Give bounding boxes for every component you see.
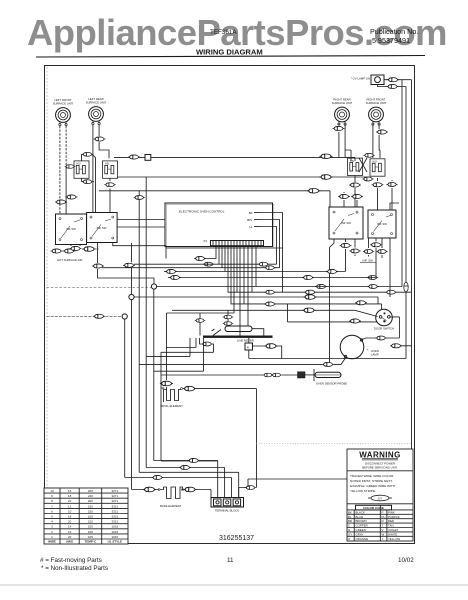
svg-text:* = Non-Illustrated Parts: * = Non-Illustrated Parts — [41, 565, 108, 572]
wire bus y287 ghost — [47, 287, 152, 289]
svg-text:BROIL ELEMENT: BROIL ELEMENT — [161, 404, 184, 408]
svg-text:PU: PU — [382, 515, 386, 519]
connector lf column 2 — [55, 200, 67, 204]
svg-text:150: 150 — [88, 509, 93, 513]
electronic oven control — [165, 203, 274, 248]
wire lamp riser — [330, 239, 335, 364]
wire right switch bottoms — [346, 239, 391, 298]
wire staircase y347 — [167, 338, 197, 348]
connector below right rear burner — [333, 126, 345, 130]
connector y460 — [188, 458, 200, 462]
connector rf switch bottom d — [376, 250, 387, 254]
wire right bus drop b — [405, 87, 407, 359]
svg-text:240: 240 — [88, 494, 93, 498]
oven relay board bar — [203, 336, 273, 338]
connector lr switch bottom b — [123, 263, 135, 267]
svg-text:TERMINAL BLOCK: TERMINAL BLOCK — [215, 509, 239, 513]
svg-text:BLACK: BLACK — [356, 510, 366, 514]
svg-text:RED: RED — [388, 519, 394, 523]
wire eoc terminal drop 5 — [228, 246, 412, 293]
connector eoc t2 — [203, 262, 214, 266]
svg-text:3321: 3321 — [111, 515, 118, 519]
connector bus297 — [303, 295, 316, 300]
wire right switch feeds — [344, 192, 399, 210]
wire block right feed — [238, 488, 240, 498]
node junction circle 2 — [129, 294, 134, 299]
connector bus302 a — [264, 302, 276, 306]
connector rr switch bottom — [340, 243, 352, 247]
svg-text:BR: BR — [348, 519, 352, 523]
wire center drop — [256, 389, 258, 486]
wire eoc terminal drop 4 — [164, 246, 346, 272]
svg-text:1015: 1015 — [111, 525, 118, 529]
oven lamp — [340, 335, 379, 359]
wire bus y286 from junction1 — [157, 286, 402, 288]
svg-text:20: 20 — [68, 520, 72, 524]
wire sensor line left — [161, 374, 298, 376]
wire rr switch stub b — [355, 239, 382, 259]
wire lamp top pin — [362, 338, 412, 346]
connector rf limiter right — [386, 183, 397, 187]
wire bus y175 — [117, 176, 370, 178]
svg-text:105: 105 — [88, 530, 93, 534]
wire limiter crossover — [359, 158, 367, 172]
wire eoc drop to relay bar — [239, 246, 241, 336]
connector rf switch bottom — [370, 243, 382, 247]
connector v139 — [134, 196, 145, 200]
wire eoc drop x237 — [236, 246, 238, 293]
limiter left rear — [103, 161, 118, 178]
connector bus286 mid — [315, 284, 327, 288]
connector broil right — [183, 386, 196, 391]
svg-text:105: 105 — [88, 515, 93, 519]
svg-text:3321: 3321 — [111, 504, 118, 508]
wire block top feeds — [226, 478, 228, 480]
svg-text:C: C — [348, 524, 350, 528]
connector bus175 right — [319, 175, 332, 180]
connector relay right — [264, 344, 277, 349]
connector rf limiter bottom — [372, 183, 384, 187]
inner left scan line — [46, 67, 48, 542]
svg-text:14: 14 — [68, 525, 72, 529]
connector below left rear burner — [94, 137, 106, 141]
limiter right front — [370, 159, 385, 176]
wire eoc terminal drop 2 — [134, 246, 277, 265]
connector rd switch bottom c — [363, 250, 374, 254]
wire switch F to eoc b — [117, 226, 165, 228]
relay capsule — [225, 326, 252, 332]
svg-text:# = Fast-moving Parts: # = Fast-moving Parts — [40, 557, 102, 564]
connector capsule feed b — [223, 322, 234, 326]
warning box — [347, 449, 413, 541]
connector bus271 right b — [367, 276, 378, 280]
wire rr burner to switch — [345, 150, 351, 161]
svg-text:105: 105 — [88, 535, 93, 539]
surface element left rear — [86, 97, 107, 125]
svg-text:R: R — [382, 519, 384, 523]
wire R box stubs — [248, 338, 250, 359]
svg-text:5 95379491: 5 95379491 — [372, 36, 410, 45]
svg-text:PURPLE: PURPLE — [388, 515, 400, 519]
terminal block — [211, 498, 244, 513]
svg-text:11: 11 — [227, 557, 234, 564]
connector rr switch bottom b — [349, 249, 360, 253]
svg-text:SURFACE UNIT: SURFACE UNIT — [86, 101, 107, 105]
infinite switch left rear — [87, 213, 118, 243]
wire left rear burner to limiter — [93, 142, 109, 158]
connector right bus vertical — [404, 282, 408, 292]
svg-text:ELECTRONIC OVEN CONTROL: ELECTRONIC OVEN CONTROL — [179, 210, 225, 214]
infinite switch left front — [56, 214, 87, 245]
svg-text:R: R — [247, 346, 249, 350]
connector bus310 — [302, 308, 315, 313]
wire bake feed left — [132, 490, 212, 498]
svg-text:PINK: PINK — [388, 510, 395, 514]
connector bus271 left — [165, 269, 177, 273]
wire right bus drop c — [402, 80, 412, 541]
svg-text:WARNING: WARNING — [359, 451, 400, 460]
wire bus y157 to right limiter — [114, 157, 355, 161]
svg-text:20: 20 — [68, 499, 72, 503]
svg-text:YELLOW: YELLOW — [388, 537, 400, 541]
svg-text:3271: 3271 — [111, 494, 118, 498]
connector bus321 — [349, 319, 361, 323]
svg-text:BEFORE SERVICING UNIT.: BEFORE SERVICING UNIT. — [362, 466, 398, 470]
svg-text:3271: 3271 — [111, 499, 118, 503]
svg-text:18: 18 — [68, 515, 72, 519]
wire hot surface ind links — [62, 249, 99, 251]
limiter right rear — [348, 158, 363, 175]
wire right front burner drops — [373, 124, 380, 158]
svg-text:3321: 3321 — [111, 509, 118, 513]
connector bus292 — [304, 290, 316, 294]
wire eoc terminal drop 3 — [102, 246, 280, 268]
connector lamp top — [375, 336, 386, 340]
oven light OV LAMP — [351, 75, 384, 85]
wire bundle turn y467 — [146, 177, 224, 498]
wire broil right run — [195, 388, 257, 390]
svg-text:20: 20 — [68, 535, 72, 539]
infinite switch right rear — [329, 207, 363, 239]
wire lamp left link — [139, 358, 345, 365]
svg-text:TRACER WIRE: WIRE COLOR: TRACER WIRE: WIRE COLOR — [350, 474, 394, 478]
svg-text:150: 150 — [88, 504, 93, 508]
wire rf limiter right stub — [391, 180, 393, 210]
limiter left front — [74, 161, 89, 178]
wire eoc L1 line — [261, 227, 277, 265]
connector between limiters low — [362, 177, 373, 181]
svg-text:* OV LAMP 1W: * OV LAMP 1W — [351, 77, 371, 81]
svg-text:105: 105 — [88, 525, 93, 529]
svg-text:BL: BL — [348, 515, 352, 519]
svg-text:COLOR CODE: COLOR CODE — [363, 506, 384, 510]
wire eoc drop 10 — [244, 246, 256, 304]
svg-text:L1: L1 — [249, 225, 253, 229]
svg-text:G/Y: G/Y — [378, 496, 383, 500]
svg-text:TAN: TAN — [388, 524, 394, 528]
wire ov lamp to right bus — [378, 80, 407, 87]
svg-text:SURFACE UNIT: SURFACE UNIT — [366, 101, 387, 105]
svg-text:GY: GY — [348, 532, 352, 536]
wire staircase y356 — [146, 338, 190, 357]
node junction circle 3 — [122, 314, 127, 319]
connector below right front burner — [376, 130, 388, 134]
wire bus y297 door switch — [134, 297, 378, 304]
wire eoc terminal drop 6 — [231, 246, 382, 322]
connector door lamp join — [390, 344, 402, 348]
svg-text:COPPER: COPPER — [356, 524, 368, 528]
door switch — [374, 309, 394, 330]
wire right limiter stubs down — [355, 176, 378, 210]
connector lf below limiter — [82, 180, 93, 184]
wire eoc BK line — [261, 213, 283, 293]
footer rule — [0, 584, 468, 586]
wire right rear burner drops — [339, 124, 345, 157]
svg-text:HOT SURFACE IND.: HOT SURFACE IND. — [57, 258, 83, 262]
wire left rear burner drops — [93, 125, 99, 213]
wire relay right connector line — [253, 346, 282, 359]
wire junction2 drop — [131, 300, 133, 490]
connector bus190 right — [307, 189, 320, 194]
svg-text:16: 16 — [68, 489, 72, 493]
surface element right rear — [332, 98, 353, 126]
connector bus267 — [264, 266, 275, 270]
svg-text:INF. SW.: INF. SW. — [363, 259, 374, 263]
svg-text:TEF361A: TEF361A — [210, 29, 237, 36]
svg-text:18: 18 — [68, 494, 72, 498]
header rule — [36, 56, 425, 58]
svg-text:T: T — [382, 524, 384, 528]
connector bake right — [183, 487, 196, 492]
connector ls bottom a — [70, 246, 82, 250]
connector lf column — [66, 195, 78, 199]
svg-text:3271: 3271 — [111, 489, 118, 493]
svg-text:10/02: 10/02 — [398, 557, 414, 564]
wire under eoc y248 — [166, 247, 283, 249]
svg-text:ORANGE: ORANGE — [356, 537, 369, 541]
connector left feed — [93, 314, 105, 318]
connector pair above right switches — [338, 194, 350, 198]
wire rr pin stub — [338, 123, 340, 126]
wire eoc terminal drop 1 — [204, 246, 217, 259]
connector bus277 mid — [302, 275, 314, 279]
relay contact box R — [245, 343, 253, 350]
svg-text:AWG: AWG — [66, 540, 74, 544]
svg-text:200: 200 — [88, 489, 93, 493]
svg-text:200: 200 — [88, 499, 93, 503]
wire capsule left feed — [227, 310, 229, 326]
svg-text:BK: BK — [249, 211, 253, 215]
svg-text:DOOR SWITCH: DOOR SWITCH — [374, 327, 394, 331]
wire bar left feed — [199, 313, 201, 336]
wire right bus drop a — [401, 80, 403, 287]
infinite switch right front — [368, 210, 396, 238]
svg-text:INF SW: INF SW — [341, 221, 351, 225]
connector lr below limiter — [104, 183, 115, 187]
connector y467 — [179, 465, 191, 469]
wire eoc drop to capsule — [247, 246, 249, 326]
wire broil top feed — [166, 313, 168, 390]
hot surface indicator — [51, 247, 96, 262]
bake element — [158, 487, 185, 508]
wire bundle turn y477 — [125, 478, 232, 498]
wire bar left oval stub — [200, 338, 214, 352]
main diagram border — [45, 66, 415, 544]
svg-text:GREEN: GREEN — [356, 528, 366, 532]
node junction circle 1 — [151, 284, 156, 289]
wire limiter lr stub down — [109, 178, 111, 212]
wire size table — [44, 488, 128, 544]
connector bus286 right — [367, 285, 378, 289]
svg-text:12: 12 — [68, 504, 72, 508]
wire bundle turn y460 — [154, 461, 218, 498]
terminal strip P1 — [204, 239, 264, 246]
connector bus157 right — [319, 154, 332, 159]
connector pair above right switches b — [351, 194, 363, 198]
connector sensor a — [263, 373, 274, 377]
svg-text:BAKE ELEMENT: BAKE ELEMENT — [160, 504, 182, 508]
surface element left front — [53, 98, 74, 126]
connector sensor b — [271, 373, 282, 377]
wire staircase y352 — [161, 352, 218, 461]
svg-text:BPL: BPL — [247, 218, 253, 222]
connector ov lamp lower — [387, 84, 399, 88]
svg-text:316255137: 316255137 — [219, 535, 254, 542]
wire dashed left feed — [47, 315, 123, 317]
connector center drop bottom — [245, 486, 256, 490]
label inf sw underline — [360, 262, 376, 264]
svg-text:YELLOW STRIPE.: YELLOW STRIPE. — [350, 489, 376, 493]
wire door switch right pin — [390, 317, 399, 338]
connector ov lamp — [387, 78, 399, 82]
svg-text:16: 16 — [68, 530, 72, 534]
connector bus277 left — [169, 275, 181, 279]
wire bus y277 — [168, 277, 376, 279]
connector left limiter top — [82, 152, 93, 156]
connector above rf limiter — [363, 153, 374, 157]
svg-text:UL STYLE: UL STYLE — [108, 540, 122, 544]
connector lamp left — [322, 362, 334, 366]
svg-text:GRAY: GRAY — [356, 532, 364, 536]
svg-text:W: W — [382, 532, 385, 536]
wire bus y310 door switch left pin — [172, 310, 378, 316]
svg-text:V: V — [382, 528, 384, 532]
connector bake left — [143, 487, 156, 492]
svg-text:SURFACE UNIT: SURFACE UNIT — [53, 102, 74, 106]
connector eoc t1 — [194, 256, 206, 260]
svg-text:WHITE: WHITE — [388, 532, 397, 536]
wire bundle turn y472 — [139, 191, 239, 498]
connector bar left feed — [195, 319, 206, 323]
relay switch arm — [212, 329, 222, 336]
wire switch F to eoc a — [117, 219, 165, 221]
svg-text:BK: BK — [348, 510, 352, 514]
svg-text:P: P — [382, 510, 384, 514]
svg-text:10: 10 — [50, 489, 54, 493]
wire eoc terminal drop 7 — [167, 246, 235, 313]
svg-text:BLUE: BLUE — [356, 515, 364, 519]
connector broil top — [160, 381, 173, 386]
connector lr switch bottom a — [92, 264, 104, 268]
scan dotted line — [256, 443, 412, 445]
svg-text:NOTED FIRST, STRIPE NEXT.: NOTED FIRST, STRIPE NEXT. — [350, 479, 393, 483]
surface element right front — [366, 98, 387, 126]
svg-text:BROWN: BROWN — [356, 519, 367, 523]
svg-text:WIRING DIAGRAM: WIRING DIAGRAM — [196, 48, 263, 57]
wire left switch bottoms — [71, 243, 152, 295]
wire right bus bottom run — [248, 479, 412, 487]
connector bus292 left — [264, 290, 275, 294]
broil element — [161, 387, 184, 408]
svg-text:EXAMPLE: GREEN WIRE WITH: EXAMPLE: GREEN WIRE WITH — [350, 484, 395, 488]
svg-text:1015: 1015 — [111, 535, 118, 539]
wire center drop bottom to block — [239, 486, 257, 488]
wire junction1 drop — [152, 278, 155, 461]
svg-text:LAMP: LAMP — [371, 353, 379, 357]
svg-text:3321: 3321 — [111, 520, 118, 524]
wire bus y190 — [99, 191, 330, 207]
svg-text:1015: 1015 — [111, 530, 118, 534]
wire left front burner drops — [60, 126, 66, 214]
wire junction3 drop — [124, 319, 126, 477]
wire eoc BPL line — [261, 220, 280, 268]
svg-text:OVEN SENSOR PROBE: OVEN SENSOR PROBE — [316, 382, 347, 386]
wire switch F bottom to eoc — [113, 243, 166, 259]
connector bus264 — [258, 262, 269, 266]
svg-text:150: 150 — [88, 520, 93, 524]
svg-text:P1: P1 — [204, 239, 208, 243]
wire limiter lf stubs — [66, 154, 95, 212]
node square junction — [145, 155, 151, 161]
connector rr limiter bottom — [349, 183, 361, 187]
svg-text:Y: Y — [382, 537, 384, 541]
connector bus292 right — [385, 290, 396, 294]
svg-text:LINE METER: LINE METER — [237, 339, 254, 343]
oven sensor probe — [298, 369, 348, 386]
connector bus271 right — [326, 269, 338, 273]
svg-text:Publication No.: Publication No. — [370, 27, 418, 36]
svg-text:SURFACE UNIT: SURFACE UNIT — [332, 101, 353, 105]
svg-text:INF SW: INF SW — [377, 222, 387, 226]
svg-text:VIOLET: VIOLET — [388, 528, 399, 532]
wire burner1 pin b lower — [65, 167, 67, 215]
wire bus y358 long — [249, 358, 406, 360]
svg-text:TEMP°C: TEMP°C — [85, 540, 98, 544]
connector bus302 b — [355, 301, 367, 305]
svg-text:10: 10 — [68, 509, 72, 513]
svg-text:WIRE: WIRE — [48, 540, 56, 544]
wire staircase y371 — [154, 338, 204, 371]
connector limiter A left — [65, 165, 76, 169]
wire capsule right to bar — [252, 329, 264, 336]
connector capsule feed a — [223, 315, 234, 319]
connector y477 — [152, 475, 164, 479]
connector relay bottom — [201, 342, 212, 346]
connector bus157 left — [128, 155, 140, 159]
